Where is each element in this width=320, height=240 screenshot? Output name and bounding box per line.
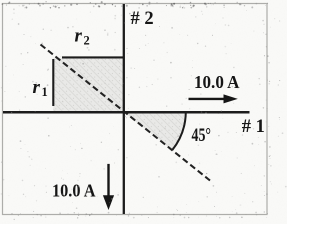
svg-text:10.0 A: 10.0 A	[194, 72, 240, 92]
svg-text:2: 2	[84, 34, 90, 48]
svg-text:1: 1	[42, 85, 48, 99]
svg-text:r: r	[33, 77, 41, 98]
svg-text:45°: 45°	[192, 126, 212, 146]
svg-text:10.0 A: 10.0 A	[52, 181, 96, 201]
svg-text:# 2: # 2	[131, 9, 154, 29]
svg-text:r: r	[75, 26, 83, 47]
svg-text:# 1: # 1	[242, 117, 265, 137]
